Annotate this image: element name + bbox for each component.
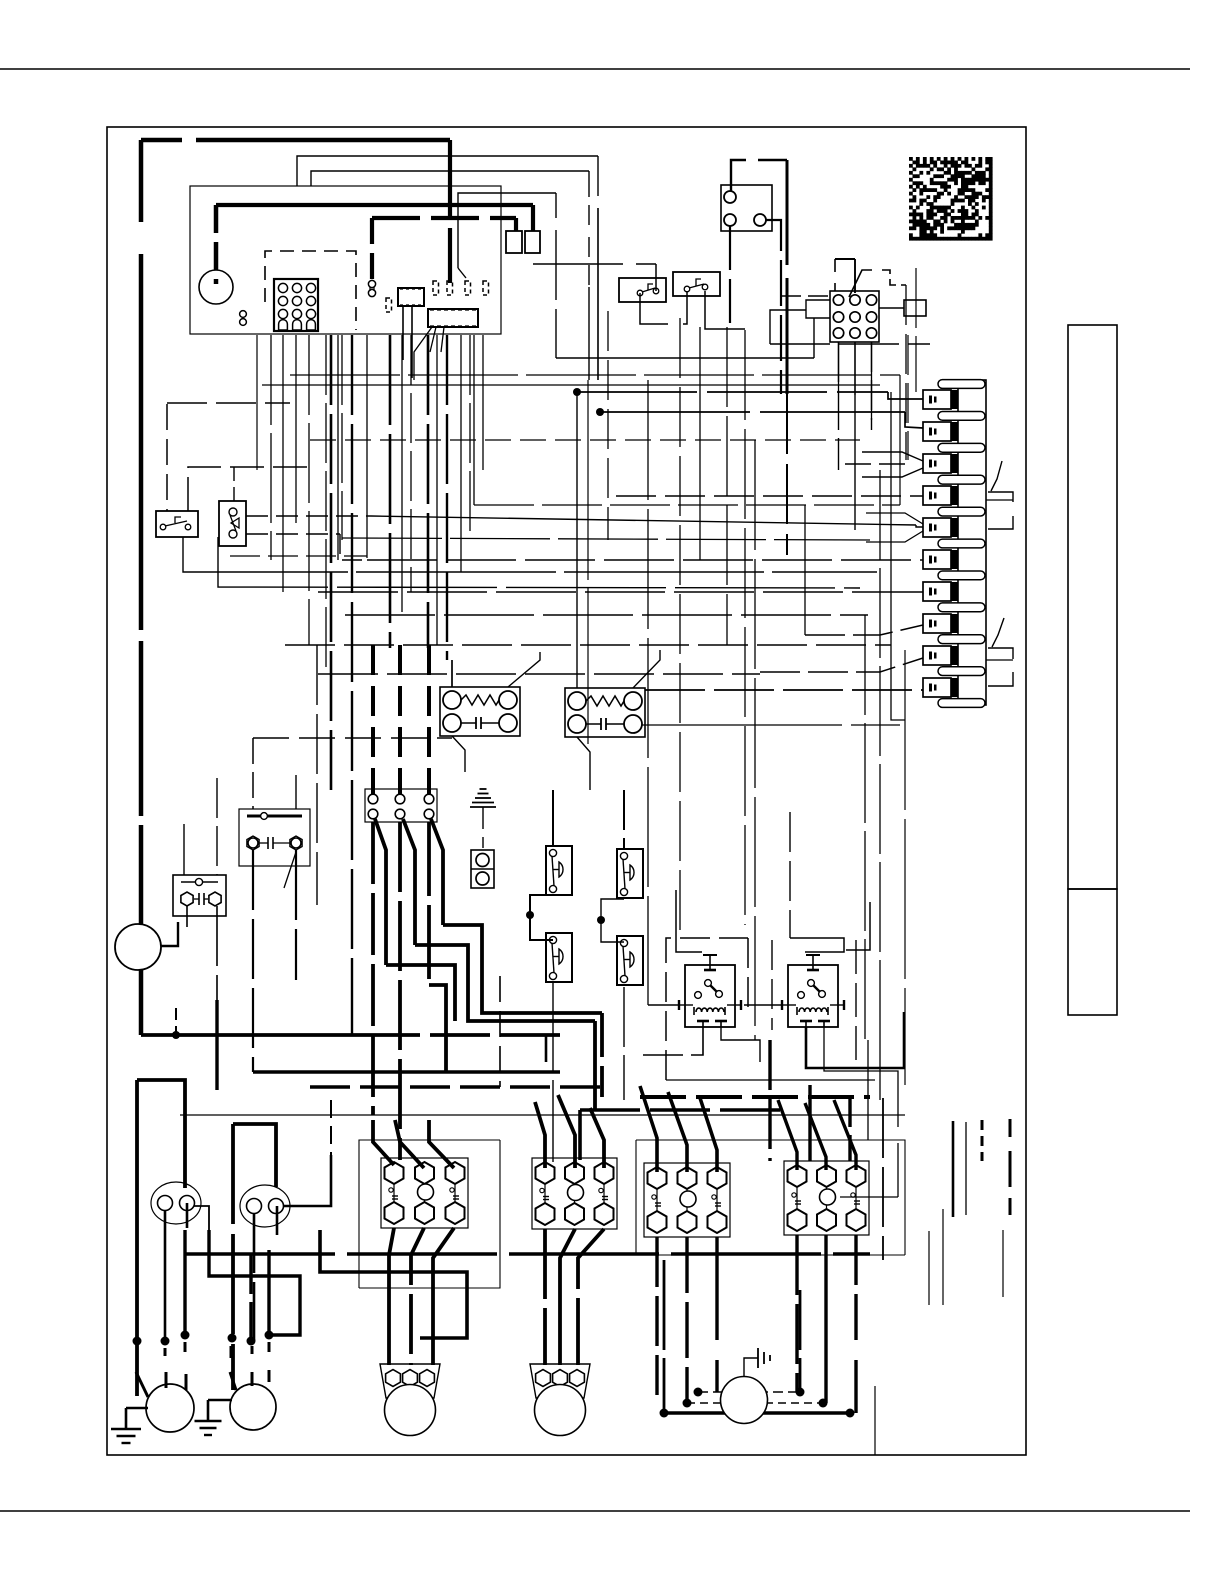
bus y1035 ext [360, 1033, 560, 1037]
TB-A right stub box [904, 300, 926, 316]
RC1 loop wire [209, 1230, 300, 1335]
CC2 out [543, 1229, 547, 1365]
contactor right drop [786, 160, 789, 265]
fuse F3 [447, 281, 453, 295]
vert x317 [316, 645, 318, 905]
limit switch LS2 [546, 933, 572, 982]
thick bus 218 drop [514, 218, 518, 231]
riser x770 [768, 1040, 771, 1161]
M4 bottom bus [664, 1411, 850, 1415]
bus y1254 [185, 1252, 870, 1256]
limit switch LS1 [546, 846, 572, 895]
connector spade bars [938, 380, 985, 389]
pressure wire right [246, 515, 371, 517]
wire y656 [760, 658, 923, 672]
fuse F4 [465, 281, 471, 295]
door switch top wire [167, 402, 290, 404]
legend lines B [928, 1231, 930, 1305]
S2 right drop [705, 291, 745, 329]
stair dash x546 [545, 1035, 548, 1062]
dot drops [249, 1254, 252, 1341]
stair turn 1 [443, 925, 602, 1013]
CC1 entries [373, 1120, 394, 1165]
run capacitor RC1 [151, 1182, 201, 1224]
wire y615 [345, 614, 868, 616]
CR2 enclosure sides [771, 940, 773, 1030]
LS junction left [526, 911, 534, 919]
thin line 156 [297, 156, 598, 186]
line 264 seg [533, 263, 623, 265]
contactor pin 3 [754, 214, 766, 226]
fan motor M2b circle [230, 1384, 276, 1430]
legend tall box upper [1068, 325, 1117, 889]
RC2 leads [253, 1213, 256, 1341]
LS junction right [597, 916, 605, 924]
vert x648 [647, 380, 649, 1005]
control relay CR2 [788, 965, 838, 1027]
thick bus 205 drop [531, 205, 535, 231]
bus y1110 [580, 1108, 790, 1112]
TB-A left wires [806, 300, 830, 318]
line 156 right drop [597, 156, 599, 196]
bus y1035 [141, 1033, 360, 1037]
LS2 bottom lead [552, 982, 554, 1162]
thin y1115 [180, 1114, 905, 1116]
R1 top-right slant [508, 652, 540, 687]
thick bus corner drop [448, 140, 452, 216]
control harness verticals [256, 335, 258, 470]
riser x875 [874, 1386, 876, 1455]
LS4 bottom lead [623, 987, 625, 1100]
compressor feed wire 5 [427, 822, 431, 985]
contactor link [781, 295, 830, 297]
vert x908 [907, 335, 909, 460]
wire y674 [318, 673, 760, 675]
CR1 dashed enclosure [666, 938, 748, 1080]
wire y623 [805, 625, 923, 635]
right descender x880b [879, 1040, 881, 1100]
riser x865 [864, 615, 866, 1040]
wire y412 [600, 411, 905, 413]
fuse link symbol B [240, 311, 247, 318]
vert x680 [679, 318, 681, 938]
contactor pin3 wire [766, 220, 781, 394]
stair turn 4 [429, 985, 446, 1072]
vert x900 [899, 375, 901, 505]
wire y464 slants [862, 452, 923, 461]
board small rect 506 [506, 231, 522, 253]
terminal block TB-A (3x3) [830, 291, 879, 342]
stair riser x602 [600, 1013, 604, 1097]
quick-connect terminals (10) [923, 390, 951, 409]
connector bus bar [958, 380, 986, 705]
right loop A [891, 645, 905, 720]
vert x727 [726, 327, 728, 645]
relay K1 box [398, 288, 424, 306]
contactor pin2 drop [729, 226, 731, 330]
pressure switch S1 box [619, 278, 666, 302]
contactor CC3 [644, 1163, 730, 1237]
bracket lower arrow [992, 618, 1004, 647]
CC1 out [389, 1228, 394, 1365]
CC34 frame [636, 1140, 905, 1255]
CC4 out [795, 1235, 798, 1392]
vert x700 [699, 327, 701, 560]
wire y523 long [371, 516, 916, 525]
diagram outer border [107, 127, 1026, 1455]
CB1 leads [183, 824, 185, 875]
vert x838 [838, 342, 840, 470]
M1 lead right [161, 922, 178, 946]
LS1 top lead [552, 790, 554, 846]
wire slant to fuse2 [458, 268, 466, 278]
door switch box [156, 511, 198, 537]
junction dot [265, 1331, 274, 1340]
page top rule [0, 68, 1190, 70]
R2 top-left lead [576, 392, 578, 688]
wire y725 [642, 724, 900, 726]
left main bus vertical [139, 140, 144, 222]
TS1 top lead [398, 645, 402, 794]
CR1 bottom wires [640, 1027, 703, 1055]
wire y392 [577, 391, 888, 393]
pressure control symbol [229, 508, 237, 516]
vert x855 [854, 342, 856, 530]
compressor motor M4 [721, 1377, 768, 1424]
wire y412 jog [905, 412, 923, 428]
wire y527 slants [866, 513, 923, 524]
contactor CC box [721, 185, 772, 231]
wire y572 [183, 537, 877, 572]
door switch contacts [160, 524, 166, 530]
vert x805 [804, 505, 806, 635]
wire y555 dash [230, 555, 367, 557]
wire y560 [367, 559, 923, 561]
M1 dot stub [175, 1008, 177, 1035]
CR1 top feed [676, 890, 702, 952]
thick bus 218 [372, 216, 516, 220]
compressor contactor CC2 [532, 1158, 617, 1229]
control relay CR1 [685, 965, 735, 1027]
CC1 frame [359, 1140, 500, 1288]
start relay R2 (resistor/capacitor) [565, 688, 645, 737]
harness fanout [414, 327, 432, 380]
thick bus 205 [216, 203, 533, 207]
bracket upper [988, 492, 1013, 502]
S1-S2 link [640, 293, 668, 324]
junction dot B [596, 408, 604, 416]
TS1 top lead [371, 645, 375, 794]
R1 top-left lead [451, 660, 453, 687]
junction dot A [573, 388, 581, 396]
fuse link symbol A [368, 280, 375, 287]
junction dot [247, 1337, 256, 1346]
wire y464 [845, 463, 905, 465]
TB-A bottom drops [838, 342, 840, 390]
junction dot [181, 1331, 190, 1340]
bus y1087 [310, 1085, 600, 1088]
wire y440 [310, 439, 860, 441]
wire y587 [218, 537, 860, 588]
wire y592 [318, 591, 923, 593]
R2 top-right slant [633, 650, 660, 688]
vert x588 [587, 380, 589, 744]
condenser motor M3 [530, 1364, 590, 1398]
S1 contacts [637, 290, 643, 296]
M4 ground [744, 1358, 758, 1377]
riser x810 [808, 1085, 811, 1161]
wire into bracket [986, 499, 1013, 501]
wire y496 [616, 495, 923, 497]
dot lead x185 [183, 1230, 186, 1335]
junction dot [161, 1337, 170, 1346]
limit switch LS3 [617, 849, 643, 898]
splice block [471, 850, 494, 888]
wire into bracket2 [986, 659, 1013, 661]
datamatrix barcode [909, 157, 993, 241]
M2 ground [125, 1408, 128, 1428]
power terminal circle [199, 270, 233, 304]
thick U mid [231, 1124, 235, 1390]
contactor top wire [731, 160, 746, 191]
wire y375 [290, 374, 900, 376]
wire y392 jog [888, 392, 923, 399]
control board box [190, 186, 501, 334]
CC3 entries [640, 1086, 657, 1172]
M4 wires [698, 1391, 800, 1393]
wire y525 jog [916, 525, 923, 527]
riser x883 [882, 1098, 884, 1260]
RC1 leads [164, 1210, 167, 1341]
M3 ground [207, 1400, 210, 1420]
thick U left [135, 1080, 139, 1396]
compressor contactor CC1 [381, 1158, 468, 1228]
limit switch LS4 [617, 936, 643, 985]
bracket upper arrow [991, 461, 1002, 491]
inline connector J2 [428, 309, 478, 327]
compressor feed wire 2 [375, 819, 386, 965]
wire 193 jog [458, 193, 556, 268]
stair turn 2 [415, 945, 595, 1021]
CB2 arrow [284, 852, 296, 888]
riser x891 [890, 392, 892, 645]
CC2 entries [535, 1102, 545, 1168]
R1 bottom lead [452, 736, 465, 772]
bracket lower [988, 648, 1013, 659]
motor M1 circle [115, 924, 161, 970]
riser x320 [320, 1230, 467, 1338]
bus y1097 [640, 1095, 870, 1099]
plug hood dashed [265, 251, 356, 330]
pressure top lead [233, 467, 235, 502]
K1 below wires [402, 306, 404, 360]
CR2 top feed [789, 812, 791, 938]
blower motor M2 [380, 1364, 440, 1398]
fuse F2 [433, 281, 439, 295]
CB2 leads down [252, 850, 254, 1072]
CB1 terminals [181, 892, 193, 906]
vert x916 [915, 268, 917, 392]
TS1 top lead [427, 645, 431, 794]
wire y645 [285, 644, 891, 646]
wire y1080 [666, 1079, 875, 1081]
fuse F5 [483, 281, 489, 295]
pressure switch S2 box [673, 272, 720, 296]
legend lines A [952, 1121, 955, 1217]
CR coil link [648, 1004, 679, 1006]
thick bus top [141, 138, 182, 143]
riser x580 [578, 1110, 582, 1160]
stair turn 3 [386, 965, 455, 1021]
compressor feed wire 4 [403, 819, 415, 945]
vert x745 [744, 330, 746, 925]
ground lead down [482, 807, 484, 848]
run capacitor RC2 [240, 1185, 290, 1227]
legend tall box lower [1068, 889, 1117, 1015]
wire x556 drop [555, 193, 557, 218]
power terminal stem [214, 205, 219, 284]
compressor feed wire 6 [431, 819, 443, 925]
wire y358 [556, 357, 814, 359]
contactor pin 2 [724, 214, 736, 226]
vert x608 [607, 311, 609, 540]
wire y344 [770, 343, 930, 345]
stair dash x500 [499, 976, 501, 1087]
M4 left riser [663, 1260, 666, 1290]
TB-A slant wire [849, 270, 872, 297]
CR2 bottom wires [806, 1012, 904, 1068]
S2 contacts [684, 286, 690, 292]
M2 leads [136, 1348, 139, 1362]
junction dot [228, 1334, 237, 1343]
wire x814 stub [813, 318, 815, 358]
compressor feed wire 3 [398, 822, 402, 1160]
CB2 top leads [252, 738, 254, 809]
junction dot [133, 1337, 142, 1346]
M4 drop lines [663, 1290, 666, 1413]
start relay R1 (resistor/capacitor) [440, 687, 520, 736]
bus y1072 [253, 1070, 560, 1074]
CC3 out [655, 1237, 658, 1395]
contactor CC4 [784, 1161, 869, 1235]
R2 bottom lead [577, 737, 590, 790]
cap assembly CB2 [239, 809, 310, 866]
vert x755 [754, 440, 756, 1040]
wire right loop [867, 1040, 869, 1140]
S1 right drop [655, 264, 657, 291]
wire y385 [262, 384, 880, 386]
stair riser x595 [593, 1021, 597, 1110]
connector plug J1 (12-pin) [274, 279, 318, 331]
CB1 top symbol [181, 881, 218, 883]
terminal strip TS1 (3x2) [365, 789, 437, 822]
board small rect 525 [525, 231, 540, 253]
wire y538 [342, 538, 870, 540]
cap box CB1 [173, 875, 226, 916]
riser x880 [879, 470, 881, 1040]
M3 leads [230, 1346, 233, 1358]
fuse F1 [386, 298, 392, 312]
compressor feed wire 1 [371, 822, 375, 1115]
M4 dots [694, 1388, 703, 1397]
page bottom rule [0, 1510, 1190, 1512]
thin line 170 [311, 171, 589, 186]
TB-A top dash pair [882, 270, 906, 285]
LS3 top lead [623, 790, 625, 849]
riser x850 [848, 1097, 851, 1161]
junction dot M1 [172, 1031, 180, 1039]
pressure control box [219, 501, 246, 546]
vert x871 [871, 342, 873, 430]
fuse stub [370, 218, 374, 279]
door switch leads [166, 404, 168, 511]
TB-A top jog [835, 258, 855, 260]
wire y688 [645, 689, 923, 691]
wire y505 [474, 504, 900, 506]
chassis ground stack [470, 806, 496, 808]
contactor pin 1 [724, 191, 736, 203]
line 170 right drop [588, 171, 590, 225]
fan motor M2a circle [146, 1384, 194, 1432]
CC4 entries [778, 1100, 797, 1170]
TB-A top wire 1 [834, 259, 836, 272]
right descender x905 [904, 650, 906, 1085]
